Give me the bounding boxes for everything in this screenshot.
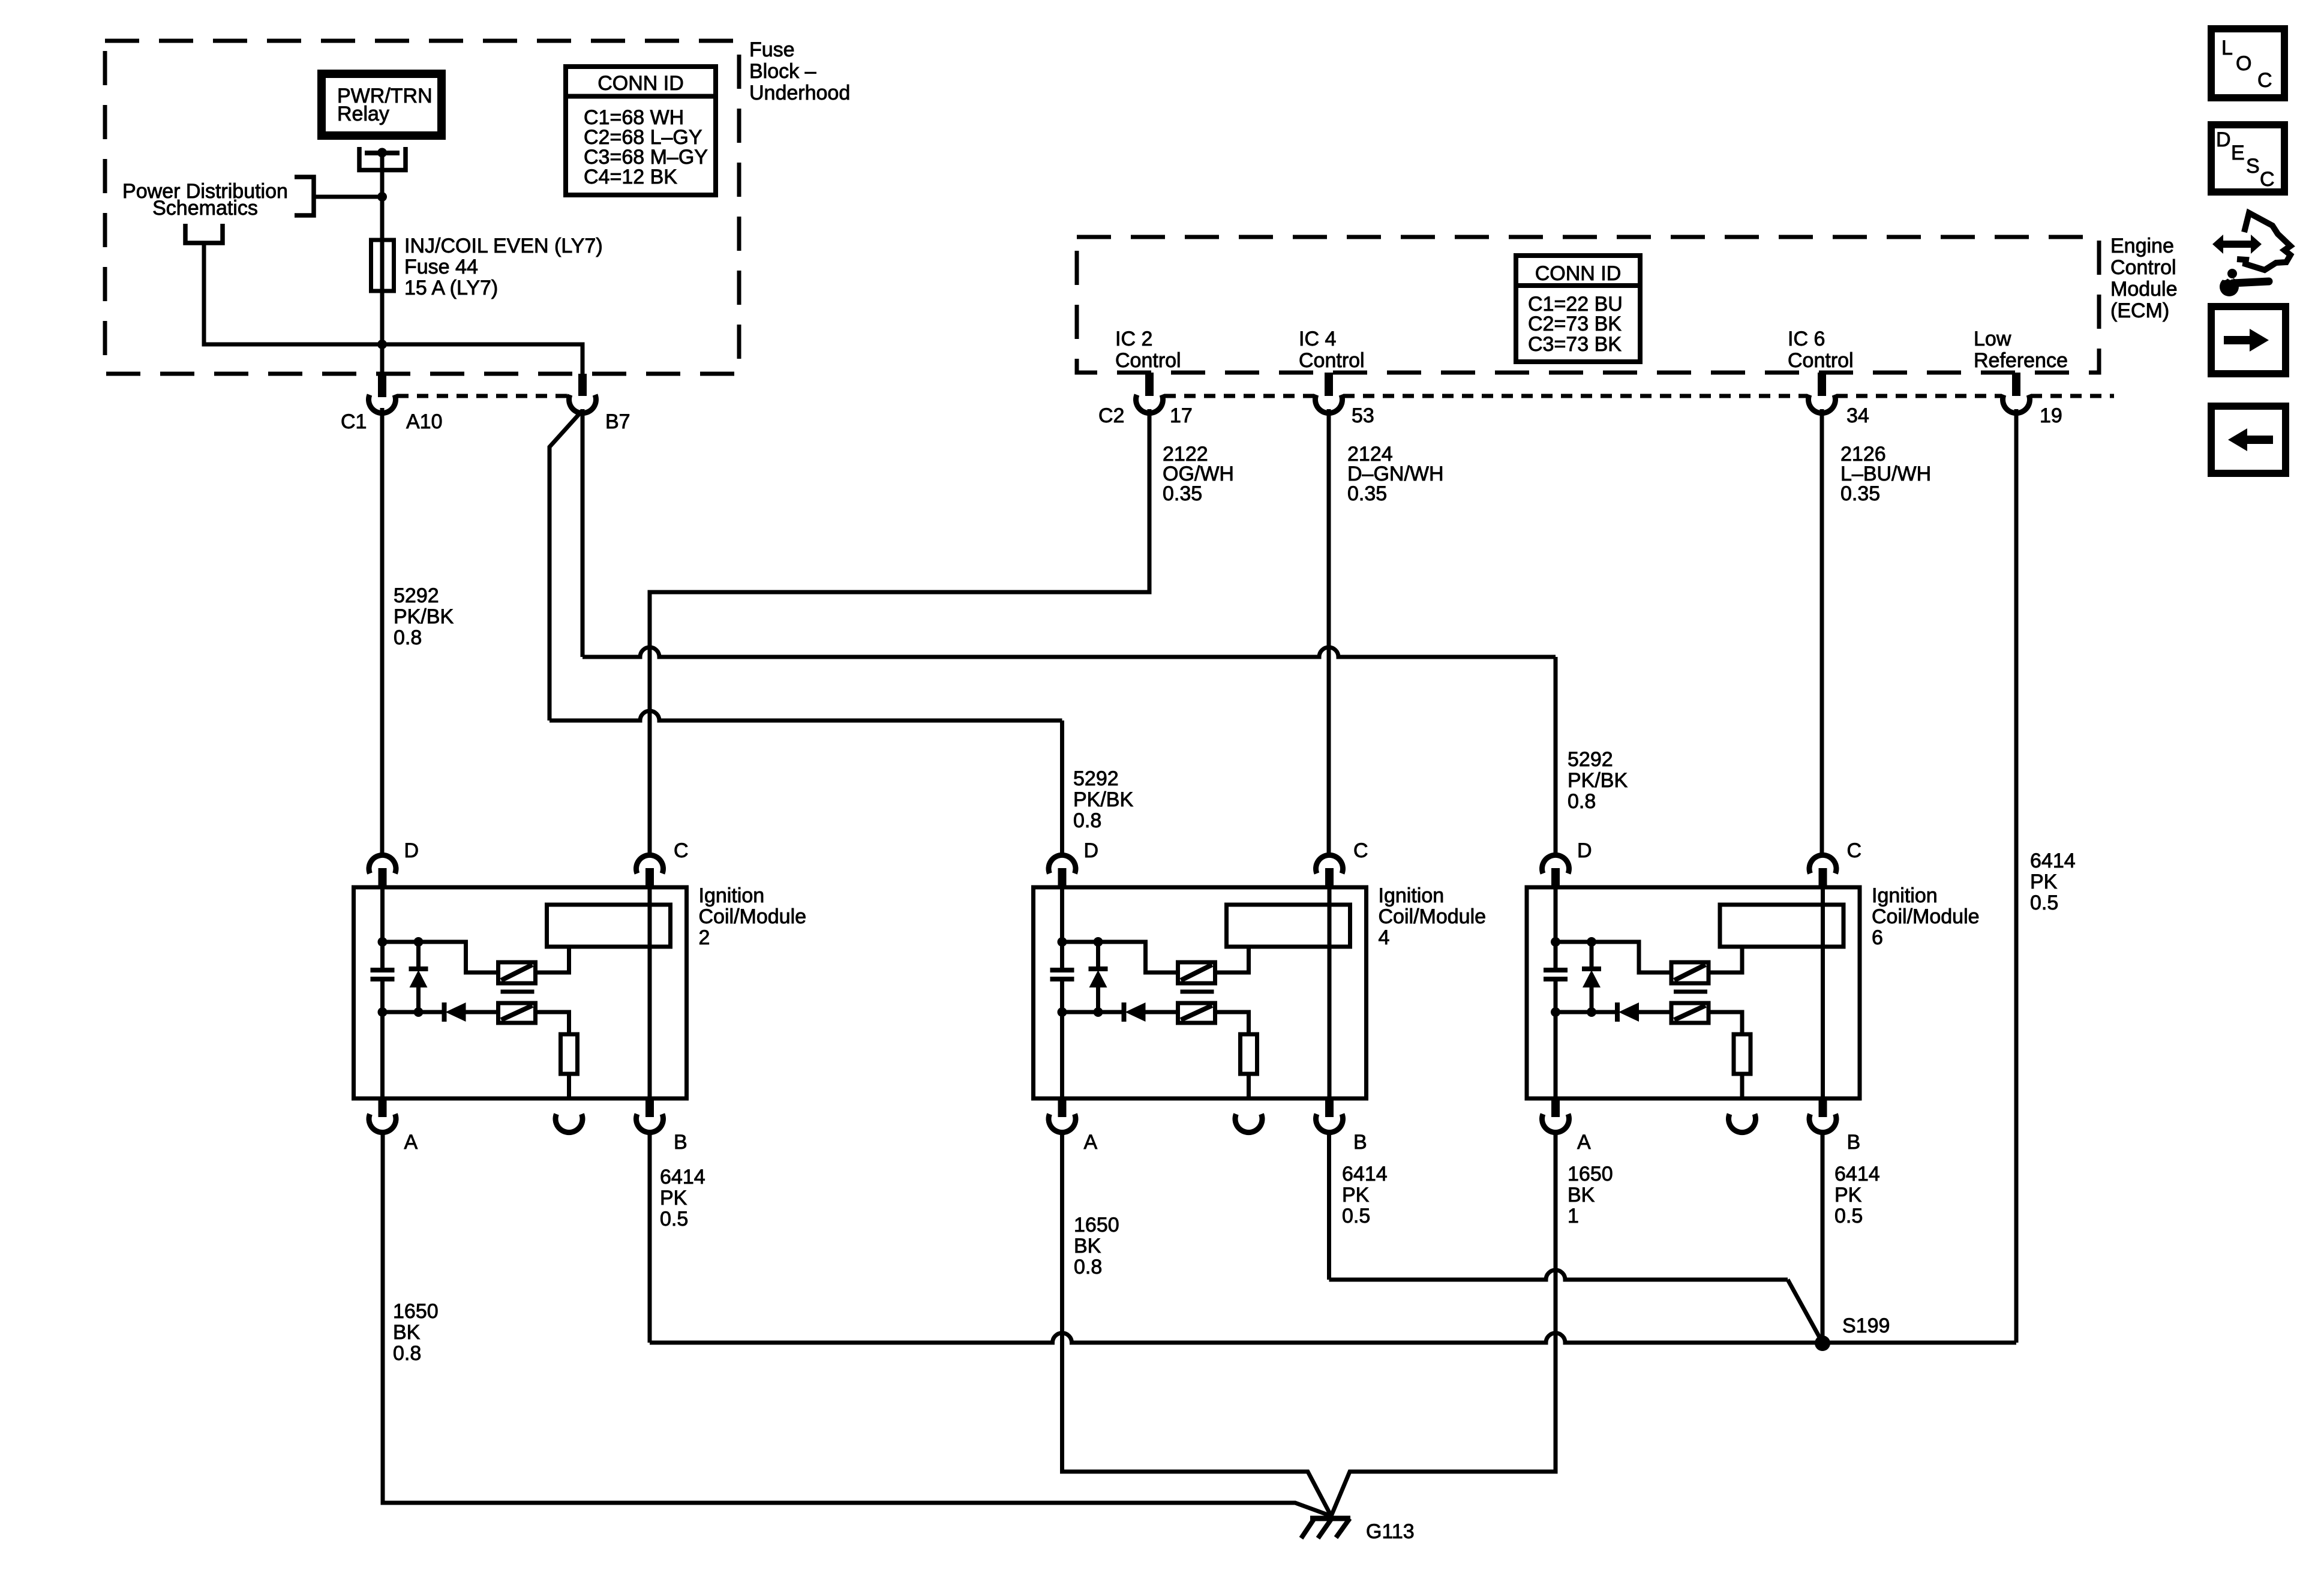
svg-text:6414: 6414 — [660, 1166, 705, 1188]
svg-text:INJ/COIL EVEN (LY7): INJ/COIL EVEN (LY7) — [404, 235, 603, 257]
svg-text:A: A — [1084, 1131, 1098, 1154]
svg-text:0.35: 0.35 — [1840, 482, 1880, 505]
svg-text:C: C — [2260, 168, 2275, 191]
svg-text:0.5: 0.5 — [660, 1208, 688, 1230]
svg-text:Coil/Module: Coil/Module — [1379, 905, 1487, 928]
svg-text:Control: Control — [1299, 349, 1365, 372]
svg-text:L: L — [2221, 37, 2233, 59]
svg-text:PK: PK — [1342, 1184, 1370, 1206]
svg-text:15 A (LY7): 15 A (LY7) — [404, 277, 498, 299]
svg-text:0.35: 0.35 — [1347, 482, 1387, 505]
svg-text:A: A — [1577, 1131, 1591, 1154]
svg-text:6: 6 — [1872, 926, 1883, 949]
svg-text:O: O — [2236, 52, 2251, 75]
svg-text:B: B — [1353, 1131, 1367, 1154]
svg-text:D: D — [1577, 839, 1592, 862]
svg-text:0.5: 0.5 — [1342, 1205, 1370, 1227]
svg-text:G113: G113 — [1366, 1520, 1415, 1543]
svg-text:Reference: Reference — [1974, 349, 2068, 372]
svg-text:4: 4 — [1379, 926, 1390, 949]
svg-text:19: 19 — [2040, 404, 2062, 427]
svg-text:PK: PK — [1834, 1184, 1862, 1206]
svg-text:Schematics: Schematics — [152, 197, 258, 220]
svg-text:PK/BK: PK/BK — [1073, 788, 1133, 811]
svg-text:BK: BK — [393, 1321, 421, 1344]
svg-text:CONN ID: CONN ID — [1535, 262, 1622, 285]
svg-text:53: 53 — [1352, 404, 1374, 427]
svg-text:B: B — [1847, 1131, 1861, 1154]
svg-text:Ignition: Ignition — [1379, 884, 1445, 907]
svg-text:6414: 6414 — [1834, 1163, 1880, 1185]
svg-text:Coil/Module: Coil/Module — [1872, 905, 1980, 928]
svg-text:B: B — [674, 1131, 687, 1154]
svg-text:D: D — [2216, 128, 2231, 151]
svg-text:6414: 6414 — [1342, 1163, 1388, 1185]
svg-text:C1: C1 — [341, 410, 367, 433]
svg-text:Fuse 44: Fuse 44 — [404, 256, 478, 278]
svg-text:Control: Control — [1788, 349, 1854, 372]
svg-text:PK/BK: PK/BK — [1568, 769, 1628, 792]
svg-text:Coil/Module: Coil/Module — [699, 905, 807, 928]
svg-text:0.8: 0.8 — [393, 1342, 421, 1365]
svg-text:BK: BK — [1568, 1184, 1595, 1206]
svg-text:C: C — [1847, 839, 1862, 862]
svg-text:Block –: Block – — [749, 60, 816, 83]
svg-text:C3=73 BK: C3=73 BK — [1528, 333, 1622, 356]
svg-text:C4=12 BK: C4=12 BK — [584, 166, 677, 188]
svg-text:C: C — [2257, 69, 2272, 92]
svg-text:1: 1 — [1568, 1205, 1579, 1227]
svg-text:2: 2 — [699, 926, 710, 949]
svg-text:IC 6: IC 6 — [1788, 328, 1825, 350]
svg-text:IC 4: IC 4 — [1299, 328, 1336, 350]
svg-text:CONN ID: CONN ID — [597, 72, 684, 95]
svg-text:C: C — [1353, 839, 1368, 862]
svg-text:0.8: 0.8 — [1073, 809, 1101, 832]
svg-text:0.5: 0.5 — [1834, 1205, 1863, 1227]
svg-text:1650: 1650 — [393, 1300, 439, 1323]
svg-text:17: 17 — [1170, 404, 1193, 427]
svg-text:(ECM): (ECM) — [2110, 299, 2169, 322]
svg-text:BK: BK — [1074, 1235, 1101, 1257]
svg-text:IC 2: IC 2 — [1115, 328, 1152, 350]
svg-text:B7: B7 — [605, 410, 630, 433]
svg-text:PK: PK — [2030, 870, 2058, 893]
svg-text:Relay: Relay — [337, 103, 389, 125]
svg-text:C: C — [674, 839, 689, 862]
svg-text:C2=73 BK: C2=73 BK — [1528, 313, 1622, 335]
svg-text:Low: Low — [1974, 328, 2011, 350]
svg-text:0.8: 0.8 — [394, 626, 422, 649]
svg-text:1650: 1650 — [1074, 1214, 1119, 1236]
svg-text:0.8: 0.8 — [1568, 790, 1596, 813]
svg-text:D: D — [1084, 839, 1099, 862]
svg-text:Control: Control — [1115, 349, 1181, 372]
svg-text:PK: PK — [660, 1187, 687, 1209]
svg-text:Fuse: Fuse — [749, 38, 795, 61]
svg-text:A: A — [404, 1131, 418, 1154]
svg-text:1650: 1650 — [1568, 1163, 1613, 1185]
svg-text:S199: S199 — [1842, 1314, 1890, 1337]
svg-text:Control: Control — [2110, 256, 2176, 279]
svg-text:S: S — [2246, 155, 2260, 178]
svg-text:6414: 6414 — [2030, 849, 2076, 872]
svg-text:Module: Module — [2110, 278, 2178, 301]
svg-text:5292: 5292 — [1073, 767, 1119, 790]
svg-text:0.8: 0.8 — [1074, 1256, 1102, 1278]
svg-text:Ignition: Ignition — [1872, 884, 1938, 907]
svg-text:A10: A10 — [406, 410, 443, 433]
svg-text:Ignition: Ignition — [699, 884, 765, 907]
svg-text:C2: C2 — [1098, 404, 1124, 427]
svg-text:Engine: Engine — [2110, 235, 2174, 257]
svg-text:34: 34 — [1846, 404, 1869, 427]
svg-text:0.35: 0.35 — [1163, 482, 1202, 505]
svg-text:5292: 5292 — [394, 584, 439, 607]
svg-text:PK/BK: PK/BK — [394, 605, 454, 628]
svg-text:Underhood: Underhood — [749, 82, 850, 104]
svg-text:5292: 5292 — [1568, 748, 1613, 771]
svg-text:0.5: 0.5 — [2030, 891, 2058, 914]
svg-text:E: E — [2231, 142, 2245, 164]
svg-text:D: D — [404, 839, 419, 862]
